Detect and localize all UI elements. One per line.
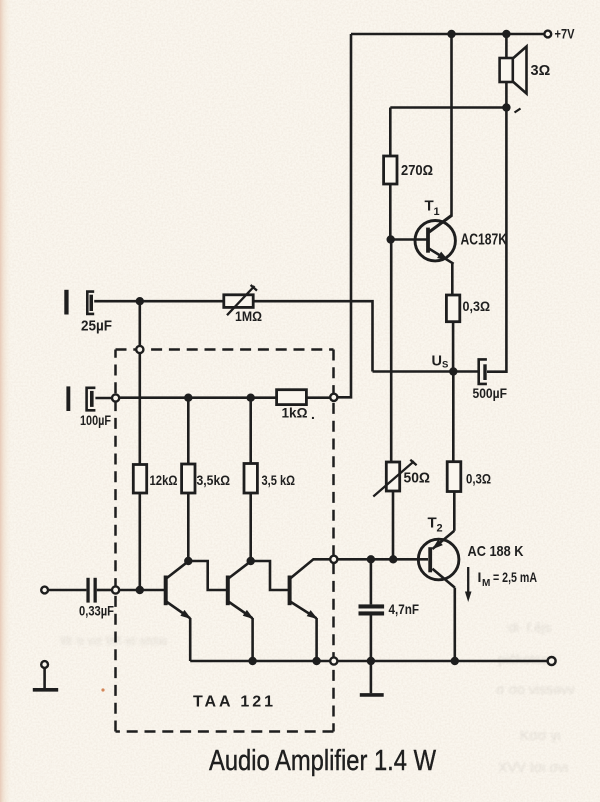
node dot T2 collector rail [451, 657, 459, 665]
wire speaker top lead [505, 34, 508, 58]
terminal output [548, 657, 556, 665]
resistor 1k [277, 390, 307, 405]
svg-text:25µF: 25µF [81, 319, 112, 335]
transistor Q1 (TAA) [166, 561, 194, 661]
svg-text:50Ω: 50Ω [404, 471, 431, 487]
paper speck [101, 688, 104, 691]
wire left drop from rail to 1k pin [337, 34, 351, 397]
capacitor 100uF [66, 386, 112, 411]
svg-text:AC 188 K: AC 188 K [468, 543, 524, 560]
resistor 0.3R upper [446, 295, 459, 372]
svg-text:500µF: 500µF [473, 385, 508, 401]
wire T1 collector drop from rail [428, 34, 452, 233]
resistor 50R variable [373, 460, 416, 560]
svg-text:AC187K: AC187K [461, 232, 508, 249]
node dot Us [449, 367, 457, 375]
pin circle right edge (Q3 collector out) [330, 556, 337, 563]
wire bias line y397 [119, 396, 330, 399]
svg-text:TAA 121: TAA 121 [193, 694, 273, 711]
svg-text:3Ω: 3Ω [531, 63, 551, 79]
transistor T2 AC188K [418, 531, 459, 661]
pin circle left edge (100uF) [112, 394, 119, 401]
resistor 1M variable [224, 285, 257, 315]
svg-text:1MΩ: 1MΩ [235, 308, 262, 324]
wire input to cap [48, 589, 86, 592]
ground left [33, 668, 58, 690]
node dot bias-3k5b [247, 394, 255, 402]
svg-text:.: . [311, 406, 315, 422]
transistor Q3 (TAA) [290, 559, 330, 661]
arrow IM current [465, 567, 472, 602]
wire 25uF column down to 12k and input line [139, 301, 142, 590]
capacitor 4.7nF [359, 559, 385, 693]
svg-text:12kΩ: 12kΩ [150, 472, 178, 488]
wire right column speaker to 500uF [487, 108, 506, 372]
transistor T1 AC187K [415, 215, 455, 264]
node dot T1 base junction [387, 235, 395, 243]
wire 270R column down to 50R [390, 240, 393, 463]
terminal ground left [41, 661, 48, 668]
svg-text:1kΩ: 1kΩ [282, 405, 308, 421]
svg-text::di· ř.ějs: :di· ř.ějs [505, 620, 552, 635]
pin circle top edge (25uF branch) [136, 346, 143, 353]
svg-text:270Ω: 270Ω [401, 163, 433, 179]
svg-text:+7V: +7V [555, 26, 576, 42]
svg-text:3,5kΩ: 3,5kΩ [197, 472, 231, 488]
node dot rail-speaker [502, 30, 510, 38]
resistor 0.3R lower [447, 462, 461, 531]
resistor 12k [133, 465, 146, 494]
svg-text:4,7nF: 4,7nF [389, 601, 420, 617]
svg-text:2: 2 [437, 523, 443, 535]
svg-text:0,3Ω: 0,3Ω [463, 298, 491, 314]
svg-text:T: T [425, 198, 434, 215]
wire speaker bottom lead [505, 82, 508, 108]
svg-text:σ σo νissəνν: σ σo νissəνν [496, 681, 575, 697]
wire Q2-Q3 coupling [251, 561, 290, 590]
capacitor 25uF [64, 290, 140, 315]
node dot bias-3k5a [184, 394, 192, 402]
ground bottom [360, 693, 384, 697]
wire bottom rail [190, 660, 547, 663]
wire Us down to 0.3R lower [452, 372, 455, 463]
svg-text:0,3Ω: 0,3Ω [466, 471, 491, 487]
node dot 25uF junction [136, 297, 144, 305]
wire 1M feedback elbow [140, 301, 373, 371]
resistor 3.5k second [244, 398, 257, 561]
terminal +7V [544, 31, 551, 38]
svg-text:1: 1 [434, 206, 440, 218]
pin circle right edge (1k out) [330, 394, 337, 401]
node dot speaker-500uF junction [502, 103, 510, 111]
svg-text:M: M [482, 578, 490, 589]
node dot Q2 collector [247, 557, 255, 565]
node dot rail-collector [447, 30, 455, 38]
node dot 4.7nF tap [367, 555, 375, 563]
node dot rail Q3 emitter [312, 657, 320, 665]
node dot rail 4.7nF/ground [367, 657, 375, 665]
svg-text:= 2,5 mA: = 2,5 mA [493, 569, 537, 585]
node dot Q1 collector [184, 557, 192, 565]
capacitor 500uF [479, 359, 487, 384]
wire T1 base [390, 238, 427, 241]
svg-text:ΧVV Iσι σνι: ΧVV Iσι σνι [498, 759, 568, 775]
wire Us horizontal [373, 370, 479, 373]
svg-text:3,5 kΩ: 3,5 kΩ [262, 472, 296, 488]
pin circle left edge (input) [112, 586, 119, 593]
svg-text:100µF: 100µF [80, 412, 111, 428]
terminal input [41, 587, 48, 594]
svg-text:0,33µF: 0,33µF [79, 603, 114, 619]
svg-text:I: I [478, 569, 482, 585]
stray tick mark [515, 109, 521, 113]
wire T2 base line [337, 558, 428, 561]
svg-text:U: U [432, 354, 442, 370]
wire y107 horizontal to 270R column [390, 106, 506, 109]
svg-text:Audio Amplifier 1.4 W: Audio Amplifier 1.4 W [209, 745, 436, 777]
node dot 12k-input [136, 586, 144, 594]
node dot 50R tap [389, 555, 397, 563]
transistor Q2 (TAA) [228, 561, 256, 661]
svg-text:T: T [428, 515, 437, 532]
resistor 270R [384, 108, 397, 240]
wire input line inside box [119, 589, 164, 592]
dashed box TAA121 [116, 350, 334, 732]
wire Q1-Q2 coupling [188, 561, 227, 590]
capacitor 0.33uF [86, 578, 112, 603]
svg-text:S: S [442, 360, 448, 371]
wire T1 emitter lead [451, 264, 454, 295]
svg-text:Kσσ γι: Kσσ γι [520, 727, 561, 743]
node dot rail Q2 emitter [248, 657, 256, 665]
svg-text:W τι νσ WI ισ ισσιιι: W τι νσ WI ισ ισσιιι [60, 633, 167, 648]
wire top +7V rail [351, 33, 544, 36]
pin circle right edge (emitter rail out) [330, 657, 337, 664]
resistor 3.5k first [182, 398, 195, 561]
speaker 3ohm [500, 47, 527, 94]
